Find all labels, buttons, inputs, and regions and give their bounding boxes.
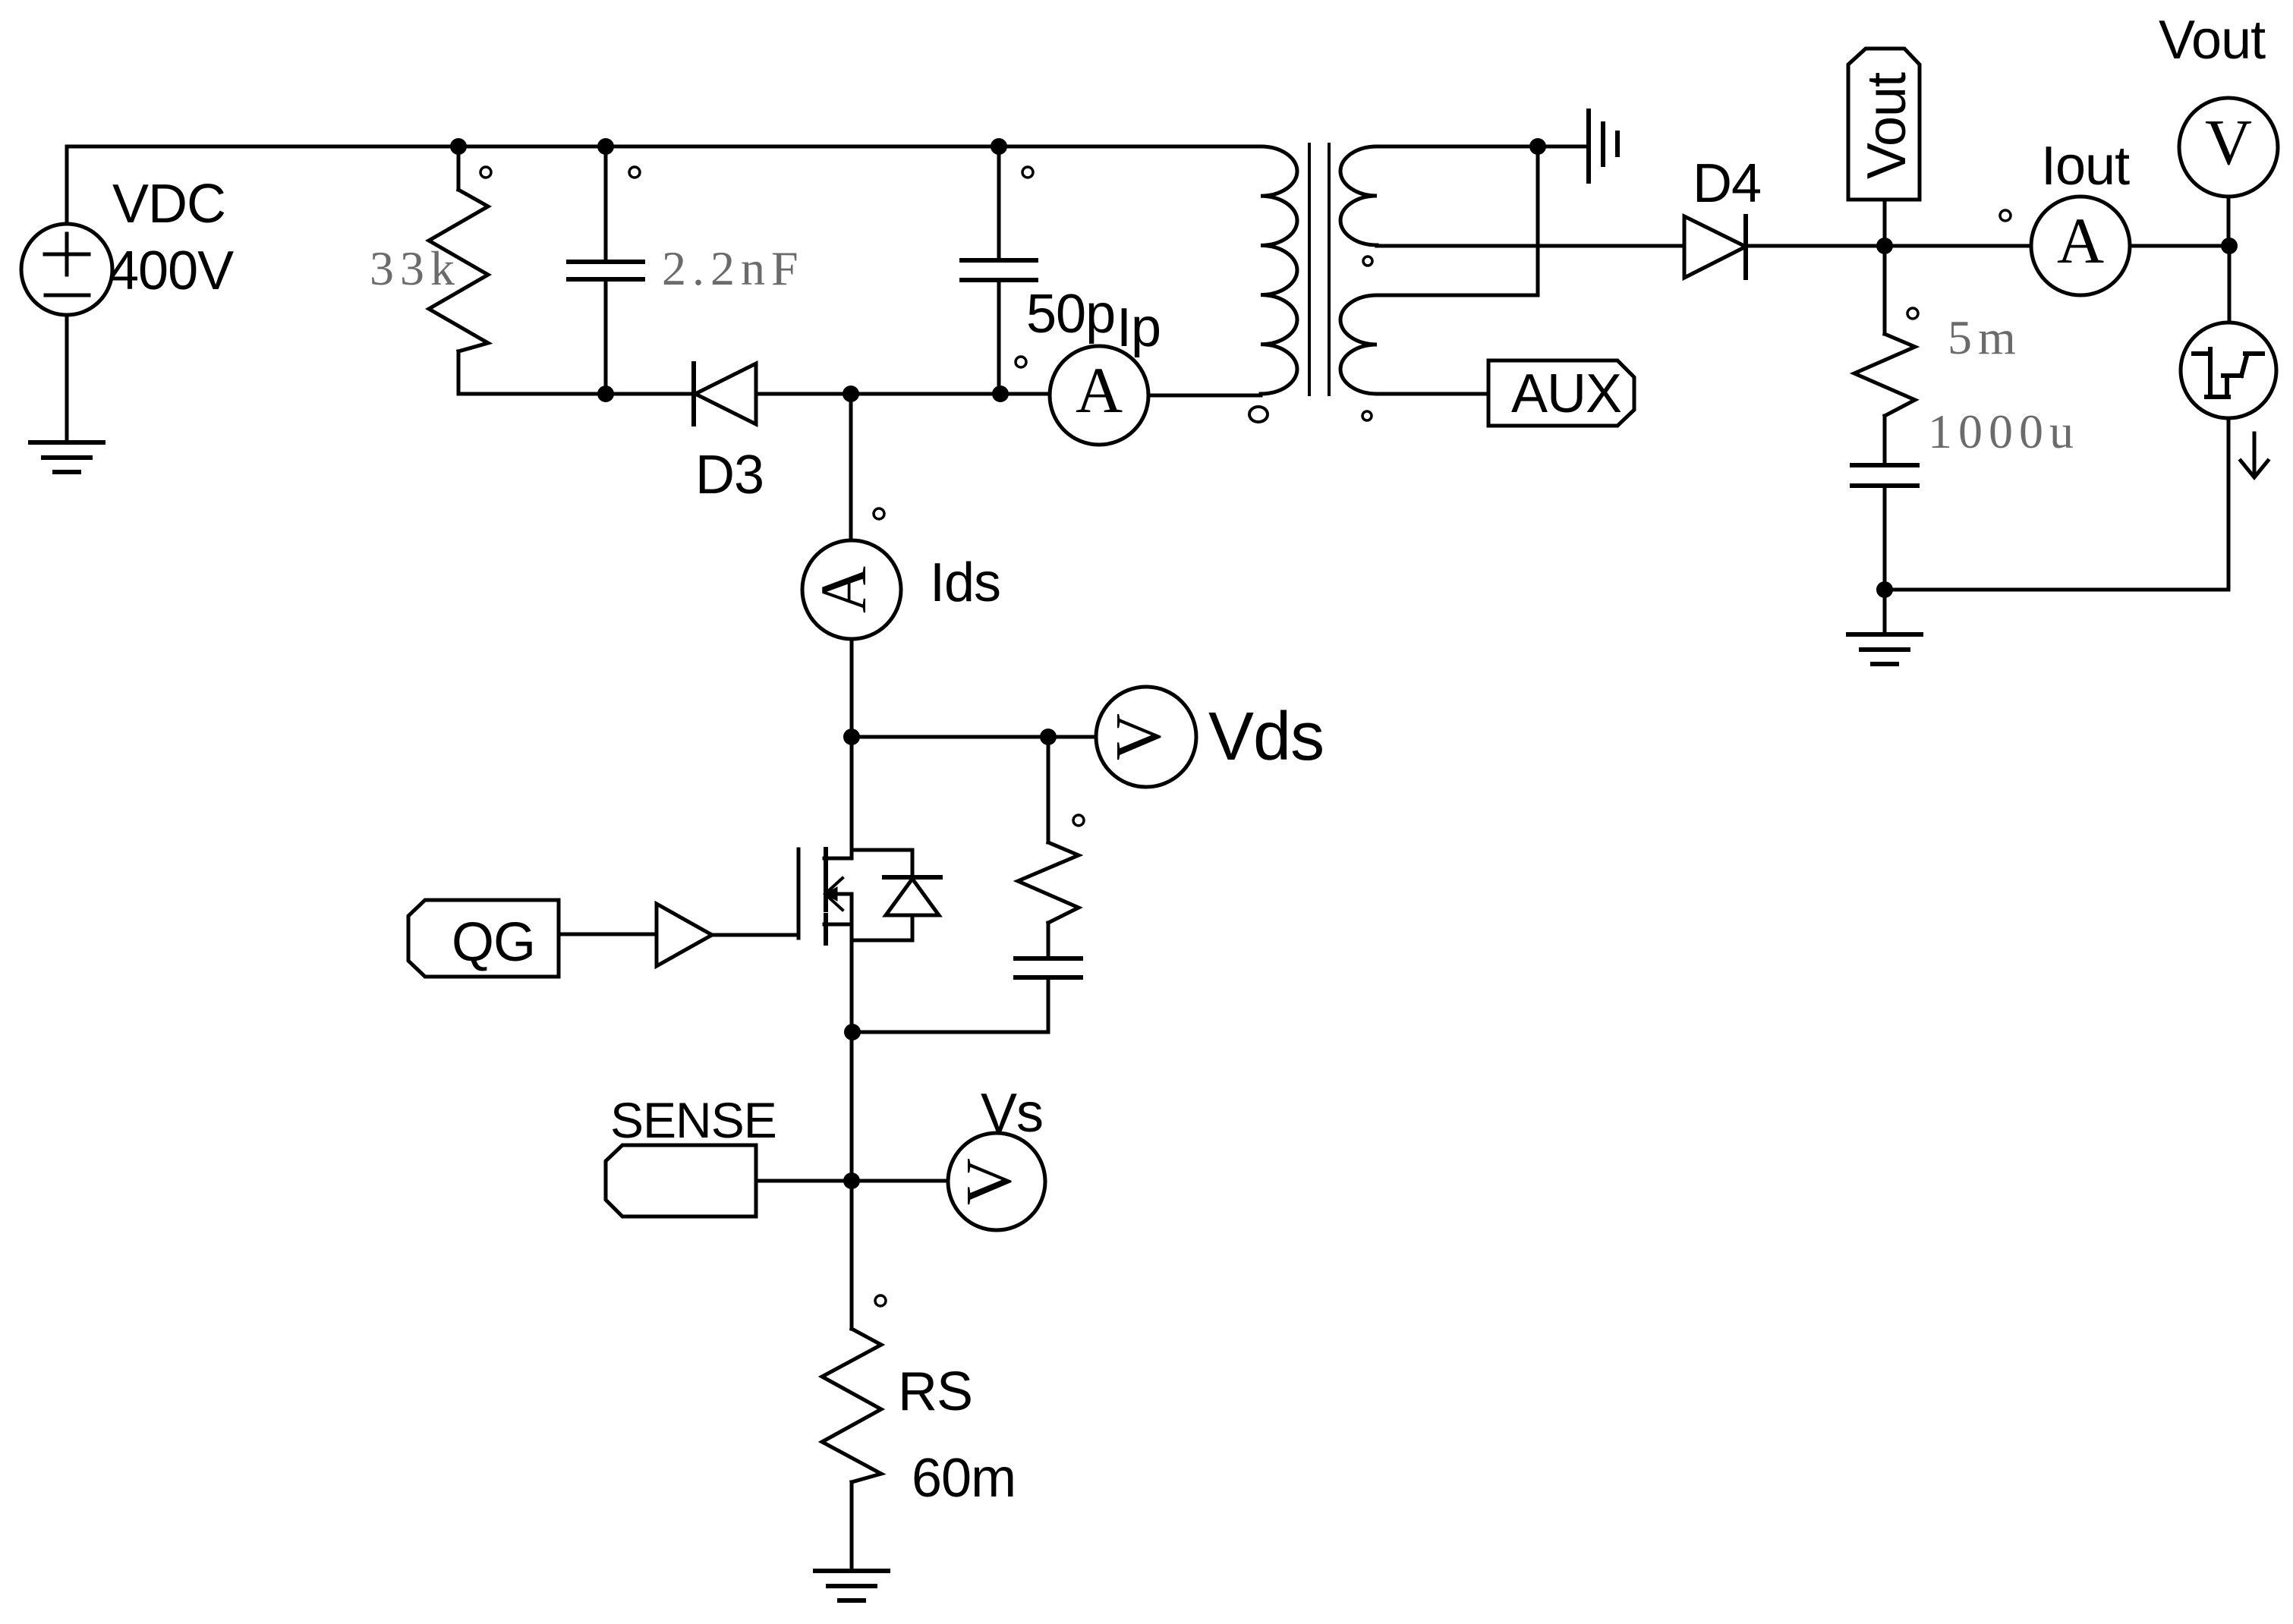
svg-text:Vout: Vout (1857, 72, 1917, 179)
diode D4 (cathode bar) (1743, 216, 1748, 278)
wire snubber R to C (1047, 923, 1050, 958)
transistor Q1 MOSFET drain wire (850, 737, 854, 858)
resistor 5m (ESR) (1854, 334, 1915, 416)
wire source node down to sense node (850, 1032, 854, 1181)
transistor Q1 source connection (824, 923, 852, 927)
wire 5m to 1000u (1883, 416, 1887, 465)
wire top rail from VDC to transformer primary (67, 145, 1261, 149)
wire buffer to gate (712, 933, 798, 937)
node junction top rail / 2.2nF (597, 138, 614, 155)
wire 33k bottom (457, 351, 461, 394)
svg-text:5m: 5m (1948, 310, 2022, 364)
wire snubber rail D3 to drain node (756, 392, 1000, 396)
ground at output (1848, 632, 1921, 637)
transformer core (1308, 144, 1311, 395)
capacitor 50p (962, 258, 1036, 263)
wire ammeter Ip to primary winding (1148, 394, 1261, 398)
capacitor 1000u (1852, 463, 1917, 467)
wire load bottom (2227, 418, 2231, 590)
voltmeter Vds (V meter) (1096, 687, 1196, 787)
pin marker snubber resistor (1073, 815, 1084, 826)
node junction top rail / 50p (991, 138, 1007, 155)
body diode bottom connection (852, 939, 912, 943)
svg-text:Vs: Vs (981, 1083, 1043, 1144)
body diode cathode lead (911, 850, 915, 877)
transformer aux winding (1340, 295, 1377, 394)
node junction MOSFET source (844, 1024, 861, 1040)
wire VDC minus to ground (65, 315, 69, 442)
svg-text:Iout: Iout (2041, 136, 2130, 197)
body diode anode lead (911, 915, 915, 940)
voltmeter Vs (V meter) (948, 1133, 1045, 1230)
wire secondary to diode D4 (1377, 244, 1684, 248)
wire Vout flag stem (1883, 200, 1887, 246)
svg-text:Vout: Vout (2159, 10, 2266, 71)
wire aux bottom to AUX flag (1377, 392, 1488, 396)
wire sense node to RS (850, 1181, 854, 1329)
transistor Q1 source wire (850, 894, 854, 1032)
wire aux top to secondary ground node (1536, 146, 1540, 295)
ground at secondary (right-facing) (1586, 111, 1591, 181)
svg-text:50p: 50p (1026, 284, 1115, 345)
diode D3 (triangle) (695, 364, 756, 424)
svg-text:400V: 400V (109, 241, 234, 301)
arrow current direction (2253, 433, 2257, 474)
wire rail to ammeter Ip (1000, 392, 1050, 396)
body diode triangle (886, 879, 939, 915)
pin marker Ids (874, 508, 884, 519)
node junction drain / Vds (843, 729, 860, 745)
svg-text:Vds: Vds (1208, 699, 1324, 775)
svg-text:QG: QG (452, 912, 535, 973)
flag Vout (net label) (1848, 49, 1920, 200)
svg-text:33k: 33k (370, 241, 461, 295)
load current source (step waveform) (2181, 323, 2276, 418)
transformer secondary winding (1340, 146, 1377, 245)
wire RS to ground (850, 1482, 854, 1571)
wire sense node to voltmeter Vs (852, 1179, 948, 1183)
wire ammeter Ids to drain (850, 639, 854, 737)
wire snubber return to source node (852, 1031, 1048, 1034)
flag AUX (1488, 360, 1634, 426)
voltmeter Vout (V meter) (2179, 98, 2278, 197)
transistor Q1 gate bar (797, 849, 801, 938)
svg-text:V: V (2205, 105, 2252, 178)
wire Vout node to 5m resistor (1883, 246, 1887, 334)
svg-text:AUX: AUX (1511, 364, 1621, 424)
wire 1000u bottom (1883, 486, 1887, 634)
buffer gate driver (657, 904, 712, 966)
wire ammeter Iout to output node (2130, 244, 2229, 248)
svg-text:60m: 60m (912, 1448, 1016, 1509)
wire drain node to ammeter Ids (849, 394, 853, 540)
resistor RS (822, 1329, 881, 1482)
capacitor 2.2nF (569, 260, 643, 264)
svg-text:SENSE: SENSE (610, 1092, 776, 1148)
ground at VDC (30, 440, 103, 445)
transistor Q1 channel segments (824, 849, 828, 873)
pin marker secondary (1363, 257, 1372, 266)
wire drain node to Vds branch (852, 735, 1096, 739)
svg-text:A: A (807, 566, 880, 613)
pin marker aux bottom (1362, 411, 1372, 420)
transformer primary winding (1261, 146, 1297, 394)
pin marker 2.2nF (629, 167, 640, 178)
node junction output (2221, 238, 2238, 254)
wire secondary top to ground node (1377, 145, 1589, 149)
wire load return to cap node (1885, 588, 2228, 592)
svg-text:Ids: Ids (930, 552, 1000, 613)
node junction secondary ground (1529, 138, 1546, 155)
body diode top connection (852, 848, 912, 852)
wire SENSE flag to sense node (756, 1179, 852, 1183)
body diode cathode bar (884, 875, 940, 880)
transistor Q1 drain connection (824, 857, 852, 861)
transistor Q1 bulk arrow (828, 892, 852, 896)
wire output node to load (2228, 246, 2232, 323)
node junction output ground (1876, 581, 1893, 598)
svg-text:VDC: VDC (112, 174, 225, 234)
svg-text:V: V (952, 1158, 1025, 1205)
wire D4 to Vout node (1746, 244, 1885, 248)
svg-text:2.2nF: 2.2nF (662, 241, 805, 295)
svg-text:V: V (1101, 713, 1174, 760)
wire VDC plus to top rail (65, 146, 69, 224)
node junction 50p bottom (992, 386, 1009, 402)
node junction sense (843, 1172, 860, 1189)
ammeter Ip (A meter) (1050, 346, 1148, 445)
pin marker Iout (2000, 210, 2011, 221)
flag QG (gate drive input) (408, 900, 559, 977)
ammeter Ids (A meter) (802, 540, 901, 639)
node junction Vds / RC snubber (1040, 729, 1057, 745)
wire 50p bottom (997, 280, 1001, 394)
svg-text:1000u: 1000u (1928, 404, 2080, 458)
svg-text:D4: D4 (1693, 153, 1761, 214)
node junction Vout (1876, 238, 1893, 254)
ammeter Iout (A meter) (2031, 197, 2130, 295)
diode D3 (cathode bar) (691, 364, 696, 424)
pin marker 50p (1022, 167, 1033, 178)
resistor RC-snubber (1018, 842, 1079, 923)
wire snubber R top (1047, 737, 1050, 842)
wire 2.2nF top (604, 146, 608, 262)
node junction drain branch (843, 386, 859, 402)
pin marker 5m (1907, 308, 1918, 319)
diode D4 (triangle) (1684, 216, 1746, 278)
svg-text:D3: D3 (695, 445, 764, 505)
pin marker 33k (480, 167, 491, 178)
pin marker RS (875, 1295, 886, 1306)
wire 50p top (997, 146, 1001, 260)
wire 2.2nF bottom (604, 279, 608, 394)
wire snubber bottom rail left segment (458, 392, 694, 396)
flag SENSE (606, 1145, 756, 1216)
wire voltmeter to output node (2227, 197, 2231, 246)
svg-text:Ip: Ip (1117, 297, 1161, 358)
wire QG flag to buffer (559, 933, 657, 936)
svg-text:A: A (2057, 204, 2104, 277)
node junction 2.2nF bottom (597, 386, 614, 402)
wire snubber C bottom (1047, 977, 1050, 1032)
capacitor RC-snubber (1016, 956, 1081, 961)
wire 33k top (457, 146, 461, 190)
resistor 33k (429, 190, 488, 351)
svg-text:A: A (1076, 354, 1123, 426)
source VDC (400V DC source symbol) (21, 224, 112, 315)
pin marker primary bottom (1249, 407, 1268, 422)
wire Vout node to ammeter Iout (1885, 244, 2031, 248)
node junction top rail / 33k (450, 138, 467, 155)
ground at RS (815, 1569, 888, 1573)
pin marker ammeter Ip (1016, 357, 1026, 367)
svg-text:RS: RS (898, 1361, 972, 1422)
